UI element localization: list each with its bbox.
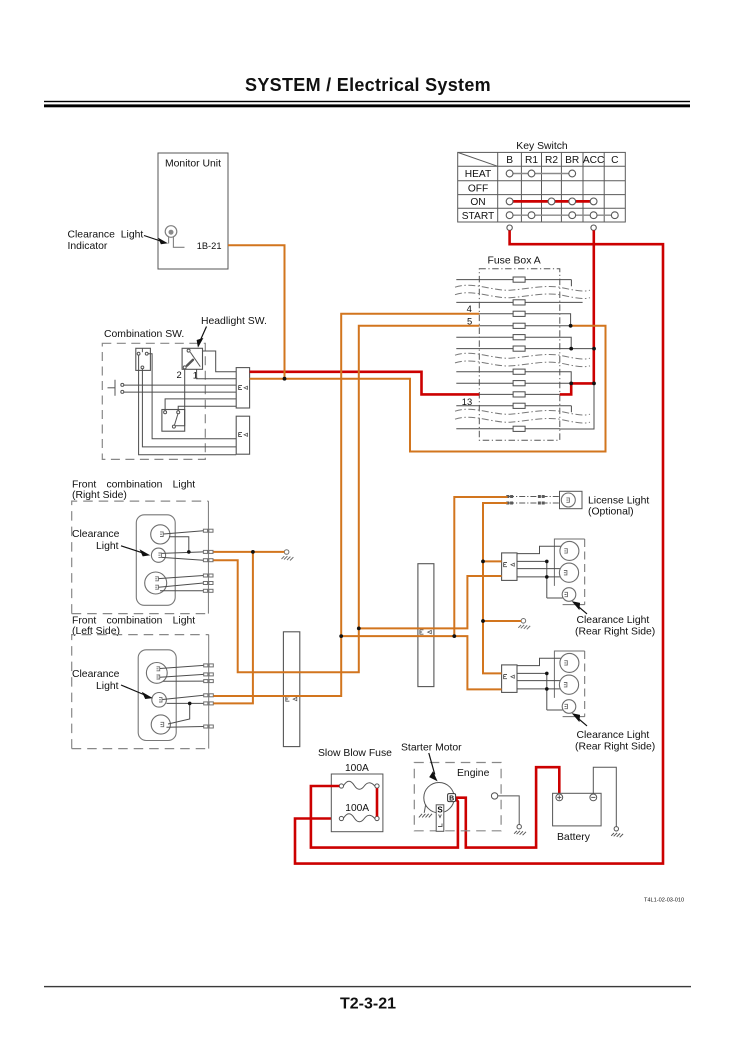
harness continuation squiggles lower bbox=[455, 409, 590, 423]
svg-text:OFF: OFF bbox=[468, 183, 488, 194]
svg-text:Clearance: Clearance bbox=[72, 529, 120, 540]
wire orange: rear feed branch B to cluster 1 bbox=[359, 576, 502, 628]
front combination light right side dashed enclosure bbox=[72, 501, 209, 613]
svg-text:C: C bbox=[611, 155, 618, 166]
left light connector pins bbox=[204, 664, 214, 728]
wire fuse row 10 bbox=[456, 406, 571, 412]
front combination light right side label bbox=[72, 480, 195, 502]
node: fuse6 link at ACC red bbox=[592, 347, 596, 351]
ON row contact link (red) bbox=[510, 200, 594, 203]
wiper relay K1 bbox=[136, 348, 151, 370]
fuse F4 bbox=[513, 323, 525, 328]
svg-text:B: B bbox=[506, 155, 513, 166]
wire fuse row 8 bbox=[456, 382, 571, 384]
battery minus terminal bbox=[590, 794, 597, 801]
ground hatch starter bbox=[419, 805, 432, 818]
right light turn bulb bbox=[145, 572, 167, 594]
key switch contact circles bbox=[506, 170, 618, 219]
fuse F2 bbox=[513, 300, 525, 305]
fuse F3 bbox=[513, 311, 525, 316]
wire orange: license light feed riser bbox=[454, 497, 507, 636]
svg-text:13: 13 bbox=[462, 396, 472, 407]
wire fuse row 1 bbox=[456, 280, 571, 287]
leader arrow to starter motor bbox=[429, 753, 437, 780]
wire orange: fuse 5 to right front light bbox=[213, 326, 479, 672]
clearance light rear label 2 bbox=[575, 730, 655, 752]
leader arrow to right clearance bulb bbox=[121, 546, 149, 556]
svg-text:(Rear Right Side): (Rear Right Side) bbox=[575, 741, 655, 752]
wire orange: ground branch to ground G2 bbox=[483, 620, 521, 622]
ground G2 rear bbox=[518, 619, 530, 630]
junction node right light bbox=[187, 550, 191, 554]
ground G1 front right bbox=[282, 550, 294, 561]
engine dashed enclosure bbox=[414, 763, 501, 831]
leader arrow to left clearance bulb bbox=[121, 685, 151, 699]
node: fuse7/8 bracket at red bbox=[569, 382, 573, 386]
wire orange: combination switch output to fuse 4/5 supply bbox=[250, 326, 606, 452]
front combination light left side label bbox=[72, 615, 195, 637]
left light internal wires bbox=[160, 665, 204, 727]
fuse F1 bbox=[513, 277, 525, 282]
left light headlamp bulb bbox=[146, 663, 167, 684]
rear cluster 2 bulbs bbox=[559, 653, 579, 713]
svg-text:B: B bbox=[449, 795, 454, 802]
clearance light rear label 1 bbox=[575, 615, 655, 637]
svg-text:Fuse Box A: Fuse Box A bbox=[488, 255, 541, 266]
svg-text:Starter Motor: Starter Motor bbox=[401, 742, 462, 753]
monitor unit box bbox=[158, 153, 228, 269]
svg-text:100A: 100A bbox=[345, 803, 369, 814]
dimmer switch S2 bbox=[162, 410, 185, 432]
wire fuse row 5 bbox=[456, 337, 571, 348]
right light headlamp bulb bbox=[151, 525, 170, 544]
svg-text:Front combination Light: Front combination Light bbox=[72, 480, 195, 491]
clearance light indicator lamp bbox=[165, 226, 184, 248]
svg-text:Clearance Light: Clearance Light bbox=[68, 230, 144, 241]
left light tail bulb bbox=[151, 715, 170, 734]
left light clearance bulb bbox=[152, 693, 167, 708]
svg-text:Engine: Engine bbox=[457, 768, 490, 779]
svg-text:T4L1-02-03-010: T4L1-02-03-010 bbox=[644, 897, 684, 903]
svg-text:Combination SW.: Combination SW. bbox=[104, 329, 184, 340]
fuse box A dash-dot enclosure bbox=[479, 269, 560, 440]
leader arrow to indicator bbox=[144, 236, 167, 244]
connector CN1 bbox=[236, 368, 249, 408]
rear cluster 2 wires bbox=[517, 658, 563, 710]
svg-text:T2-3-21: T2-3-21 bbox=[340, 996, 396, 1013]
internal wiring of combination switch bbox=[124, 351, 236, 455]
harness continuation squiggles upper bbox=[455, 285, 590, 298]
svg-text:S: S bbox=[437, 806, 443, 815]
wire fuse row 2 bbox=[456, 301, 582, 303]
svg-text:Battery: Battery bbox=[557, 832, 591, 843]
fuse F6 bbox=[513, 346, 525, 351]
slow blow fuse element F-B bbox=[339, 814, 379, 822]
rear cluster 1 junction nodes bbox=[545, 560, 549, 564]
starter S solenoid bbox=[436, 805, 444, 832]
starter B terminal bbox=[448, 794, 456, 803]
svg-text:SYSTEM / Electrical System: SYSTEM / Electrical System bbox=[245, 75, 491, 95]
svg-text:(Left Side): (Left Side) bbox=[72, 626, 120, 637]
clearance light label left bbox=[72, 669, 120, 692]
wire fuse row 3 (fuse 4) bbox=[479, 314, 570, 326]
svg-text:Light: Light bbox=[96, 541, 119, 552]
harness continuation squiggles middle bbox=[455, 353, 590, 366]
node: license riser junction bbox=[452, 634, 456, 638]
svg-text:(Rear Right Side): (Rear Right Side) bbox=[575, 626, 655, 637]
license light wires (optional dash-dot) bbox=[508, 497, 560, 504]
svg-text:2: 2 bbox=[177, 369, 182, 380]
rear cluster 1 bulbs bbox=[559, 541, 579, 601]
harness connector CN4 bbox=[418, 564, 434, 687]
ground G4 battery bbox=[611, 827, 623, 838]
fuse F9 bbox=[513, 392, 525, 397]
fuse F5 bbox=[513, 335, 525, 340]
svg-text:BR: BR bbox=[565, 155, 579, 166]
svg-text:License Light: License Light bbox=[588, 495, 649, 506]
wire red: starter B to battery plus bbox=[456, 767, 560, 847]
rear cluster 2 connector bbox=[502, 665, 517, 693]
harness connector CN3 bbox=[283, 632, 299, 747]
fuse F11 bbox=[513, 426, 525, 431]
svg-text:R2: R2 bbox=[545, 155, 558, 166]
leader arrow to rear cluster 1 bbox=[573, 602, 587, 614]
rear cluster 2 junction nodes bbox=[545, 672, 549, 676]
rear cluster 2 lamp outline bbox=[554, 651, 584, 717]
node: fuse5 branch bbox=[357, 627, 361, 631]
svg-text:100A: 100A bbox=[345, 763, 369, 774]
svg-text:(Optional): (Optional) bbox=[588, 506, 634, 517]
slow blow fuse box bbox=[331, 774, 383, 832]
clearance light label right bbox=[72, 529, 120, 552]
svg-text:Light: Light bbox=[96, 681, 119, 692]
connector CN2 bbox=[236, 416, 249, 454]
svg-text:4: 4 bbox=[467, 303, 472, 314]
key switch terminal ACC bbox=[591, 225, 596, 230]
right light connector pins bbox=[203, 529, 213, 592]
battery BT1 bbox=[553, 793, 602, 826]
wire orange: fuse 4 to left front light bbox=[213, 314, 479, 696]
clearance light indicator label bbox=[68, 230, 144, 253]
svg-text:Clearance Light: Clearance Light bbox=[577, 615, 650, 626]
node: fuse4/5 right bracket bbox=[569, 324, 573, 328]
wire: battery minus to ground G4 bbox=[593, 767, 616, 826]
left light housing bbox=[138, 650, 176, 741]
rear cluster 1 wires bbox=[517, 546, 563, 598]
node: monitor tap junction bbox=[283, 377, 287, 381]
wire orange: rear feed branch A to cluster 2 bbox=[341, 636, 501, 689]
rear cluster 1 lamp outline bbox=[554, 539, 584, 605]
ground G3 engine bbox=[514, 825, 526, 836]
wire red: key switch ACC to fuse box feed bbox=[560, 230, 594, 394]
page title SYSTEM / Electrical System bbox=[245, 75, 491, 95]
license light L1 bbox=[560, 491, 583, 508]
svg-text:START: START bbox=[462, 211, 494, 222]
wire orange: monitor unit 1B-21 tap bbox=[228, 245, 285, 378]
wire red: slow blow fuse output bridge bbox=[376, 788, 379, 816]
leader arrow to headlight switch bbox=[197, 327, 206, 347]
leader arrow to rear cluster 2 bbox=[573, 714, 587, 726]
node: ground chain cluster1 bbox=[481, 560, 485, 564]
slow blow fuse element F-A bbox=[339, 781, 379, 789]
rear cluster 1 connector bbox=[502, 553, 517, 581]
key switch column headers bbox=[506, 155, 618, 166]
wire orange: ground branch to cluster 1 bbox=[483, 560, 502, 562]
wire: engine terminal to ground G3 bbox=[498, 796, 519, 825]
combination switch dashed enclosure bbox=[102, 343, 205, 459]
svg-text:Front combination Light: Front combination Light bbox=[72, 615, 195, 626]
fuse F8 bbox=[513, 381, 525, 386]
license light label bbox=[588, 495, 649, 517]
right light internal wires bbox=[159, 531, 204, 591]
wire fuse row 11 bbox=[456, 385, 594, 429]
header double rule bbox=[44, 101, 690, 108]
front combination light left side dashed enclosure bbox=[72, 635, 209, 749]
starter motor M1 bbox=[424, 783, 454, 813]
svg-text:Slow Blow Fuse: Slow Blow Fuse bbox=[318, 748, 392, 759]
key switch terminal B bbox=[507, 225, 512, 230]
svg-text:Monitor Unit: Monitor Unit bbox=[165, 159, 221, 170]
right light clearance bulb bbox=[151, 548, 165, 562]
inline connectors on license wires bbox=[506, 495, 544, 505]
lighting coil terminal bbox=[108, 380, 124, 396]
wire fuse row 4 (fuse 5) bbox=[479, 325, 570, 327]
wire orange: right light ground to G1 bbox=[213, 551, 284, 553]
svg-text:Clearance: Clearance bbox=[72, 669, 120, 680]
HEAT row contact link bbox=[510, 173, 573, 175]
svg-text:ON: ON bbox=[470, 197, 485, 208]
node: fuse4 branch bbox=[339, 634, 343, 638]
svg-text:5: 5 bbox=[467, 315, 472, 326]
battery plus terminal bbox=[556, 794, 563, 801]
wire fuse row 9 (fuse 13 feed) bbox=[479, 393, 560, 395]
junction node left light bbox=[188, 702, 192, 706]
key switch row labels bbox=[462, 169, 494, 222]
node: fuse6 link left bbox=[569, 347, 573, 351]
svg-text:HEAT: HEAT bbox=[465, 169, 491, 180]
wire orange: license light ground chain bbox=[483, 503, 508, 673]
wire red: starter B to slow blow fuse A bbox=[311, 786, 458, 848]
node: fuse11 link at red bbox=[592, 382, 596, 386]
node: right light ground branch bbox=[251, 550, 255, 554]
svg-text:(Right Side): (Right Side) bbox=[72, 490, 127, 501]
svg-text:R1: R1 bbox=[525, 155, 538, 166]
svg-text:Clearance Light: Clearance Light bbox=[577, 730, 650, 741]
wire fuse row 6 bbox=[456, 348, 594, 350]
engine terminal bbox=[491, 793, 497, 799]
node: ground chain G2 bbox=[481, 619, 485, 623]
svg-text:ACC: ACC bbox=[583, 155, 605, 166]
START row contact link bbox=[510, 214, 615, 216]
svg-text:1B-21: 1B-21 bbox=[197, 241, 222, 251]
wire red: fuse 9 to combination switch bbox=[250, 372, 480, 395]
wire orange: ground link right light to left light bbox=[213, 552, 253, 704]
key switch U1 table grid bbox=[458, 152, 626, 222]
right light housing bbox=[136, 515, 175, 606]
footer rule bbox=[44, 986, 691, 987]
fuse F7 bbox=[513, 369, 525, 374]
headlight switch S1 bbox=[182, 348, 202, 369]
wire red: key switch B to battery circuit (right side run) bbox=[295, 230, 663, 863]
wire fuse row 7 bbox=[456, 372, 571, 383]
svg-text:Headlight SW.: Headlight SW. bbox=[201, 316, 267, 327]
svg-text:Indicator: Indicator bbox=[68, 241, 108, 252]
fuse F10 bbox=[513, 403, 525, 408]
svg-text:Key Switch: Key Switch bbox=[516, 141, 568, 152]
